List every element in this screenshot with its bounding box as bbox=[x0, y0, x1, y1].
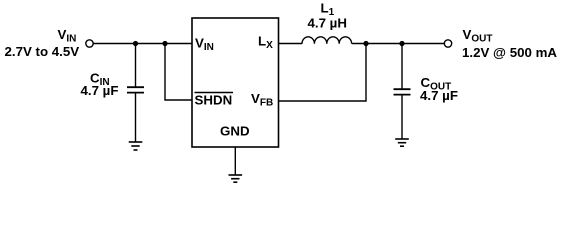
svg-text:4.7 µF: 4.7 µF bbox=[420, 88, 458, 103]
svg-text:VFB: VFB bbox=[251, 91, 273, 109]
wire feedback to VFB bbox=[279, 44, 367, 102]
ground GND bbox=[229, 175, 243, 182]
capacitor COUT bbox=[394, 89, 411, 94]
wire L1 to VOUT terminal bbox=[352, 43, 444, 45]
pin label GND bbox=[220, 124, 250, 139]
pin label LX bbox=[258, 34, 273, 52]
label COUT bbox=[421, 75, 452, 93]
wire CIN top bbox=[135, 44, 137, 88]
terminal VIN bbox=[86, 40, 93, 47]
svg-text:4.7 µF: 4.7 µF bbox=[81, 83, 119, 98]
label VOUT bbox=[463, 27, 493, 45]
svg-text:4.7 µH: 4.7 µH bbox=[308, 16, 347, 31]
ground COUT bbox=[395, 139, 409, 146]
svg-text:2.7V to 4.5V: 2.7V to 4.5V bbox=[5, 44, 80, 59]
ground CIN bbox=[129, 142, 143, 150]
svg-text:VOUT: VOUT bbox=[463, 27, 493, 45]
label 2.7V to 4.5V bbox=[5, 44, 80, 59]
svg-text:SHDN: SHDN bbox=[195, 93, 233, 108]
node junction SHDN bbox=[162, 41, 167, 46]
pin label VFB bbox=[251, 91, 273, 109]
wire CIN bottom bbox=[135, 93, 137, 142]
svg-text:VIN: VIN bbox=[58, 27, 77, 45]
label 4.7 uF out bbox=[420, 88, 458, 103]
label 1.2V @ 500 mA bbox=[462, 45, 557, 60]
label 4.7 uF bbox=[81, 83, 119, 98]
node junction CIN bbox=[133, 41, 138, 46]
inductor L1 bbox=[302, 37, 352, 44]
label 4.7 uH bbox=[308, 16, 347, 31]
wire COUT top bbox=[401, 44, 403, 90]
svg-text:LX: LX bbox=[258, 34, 273, 52]
svg-text:VIN: VIN bbox=[195, 36, 214, 54]
pin label VIN bbox=[195, 36, 214, 54]
wire SHDN bbox=[165, 44, 192, 101]
node junction COUT bbox=[399, 41, 404, 46]
IC U1 box bbox=[192, 18, 279, 147]
wire VIN terminal to U1 pin VIN bbox=[93, 43, 192, 45]
capacitor CIN bbox=[127, 87, 144, 92]
svg-text:GND: GND bbox=[220, 124, 250, 139]
node junction feedback bbox=[363, 41, 368, 46]
label VIN bbox=[58, 27, 77, 45]
wire GND pin bbox=[234, 147, 236, 175]
label L1 bbox=[321, 1, 335, 19]
label CIN bbox=[90, 71, 110, 89]
terminal VOUT bbox=[444, 40, 451, 47]
svg-text:1.2V @ 500 mA: 1.2V @ 500 mA bbox=[462, 45, 557, 60]
wire LX to L1 bbox=[279, 43, 303, 45]
pin label SHDN (active low, overline) bbox=[195, 93, 234, 108]
wire COUT bottom bbox=[401, 95, 403, 139]
